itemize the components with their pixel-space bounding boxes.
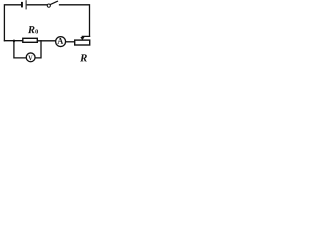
wire voltmeter right branch xyxy=(35,41,41,58)
wire ammeter to rheostat R xyxy=(65,41,74,43)
rheostat slider arrowhead xyxy=(80,37,84,40)
resistor R0 box xyxy=(23,38,38,42)
junction dot left voltmeter branch xyxy=(13,40,15,42)
voltmeter letter V xyxy=(28,56,32,61)
switch pivot circle xyxy=(47,4,50,7)
wire jog to rheostat slider xyxy=(82,35,89,38)
wire middle rail left of R0 xyxy=(5,40,23,42)
switch blade xyxy=(50,1,57,4)
voltmeter V xyxy=(26,53,35,62)
label R0 subscript 0 xyxy=(35,29,38,33)
label R xyxy=(80,54,87,61)
wire R0 to ammeter xyxy=(38,40,56,42)
label R0 letter R xyxy=(28,26,35,33)
wire top-left segment and left vertical xyxy=(4,5,21,41)
wire switch to top-right corner and right vertical xyxy=(60,5,90,37)
ammeter A xyxy=(56,37,66,47)
ammeter letter A xyxy=(57,38,63,44)
rheostat R box xyxy=(75,40,90,45)
wire voltmeter left branch xyxy=(14,41,26,58)
battery cell: thin long positive plate xyxy=(26,0,27,9)
wire between battery and switch xyxy=(27,4,47,6)
battery cell: thick short negative plate xyxy=(21,2,23,8)
